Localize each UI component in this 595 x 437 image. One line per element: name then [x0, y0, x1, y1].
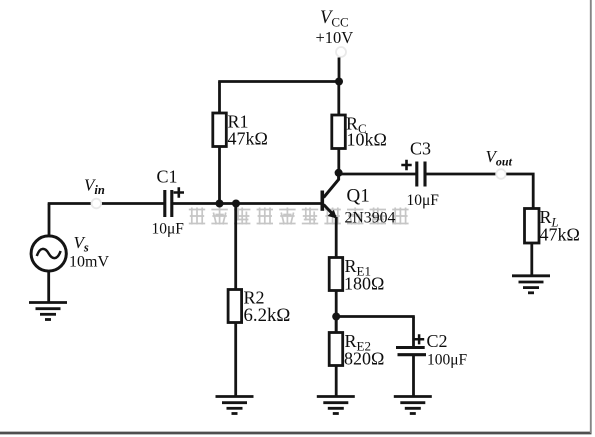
- svg-text:C2: C2: [427, 331, 448, 351]
- wire C2 top lead: [412, 317, 415, 348]
- source Vs circle: [31, 236, 66, 271]
- VCC terminal: [336, 47, 346, 57]
- wire base segment C1 to Q1: [172, 202, 323, 205]
- capacitor C2 bottom plate: [398, 353, 427, 356]
- wire RC top lead: [337, 82, 340, 117]
- svg-text:10kΩ: 10kΩ: [347, 130, 387, 150]
- svg-text:10μF: 10μF: [152, 221, 185, 238]
- svg-text:VCC: VCC: [320, 8, 349, 30]
- transistor Q1 emitter arrow: [328, 210, 337, 219]
- svg-text:10mV: 10mV: [69, 254, 109, 271]
- svg-text:100μF: 100μF: [427, 352, 468, 369]
- wire top rail: [218, 80, 340, 83]
- wire source top corner: [48, 204, 51, 237]
- wire RE2 top: [335, 317, 338, 334]
- svg-text:47kΩ: 47kΩ: [540, 225, 580, 245]
- wire RC bottom lead: [337, 149, 340, 174]
- wire input segment from source corner: [48, 202, 92, 205]
- wire C2 bottom lead: [412, 355, 415, 397]
- svg-text:Vs: Vs: [74, 233, 89, 255]
- junction dot top rail / RC: [335, 78, 343, 86]
- C2 plus polarity: [414, 334, 424, 344]
- resistor RE2: [329, 333, 343, 366]
- svg-text:Vout: Vout: [486, 147, 513, 169]
- svg-text:C1: C1: [157, 167, 178, 187]
- wire R2 top lead: [234, 204, 237, 291]
- node Vout terminal: [496, 169, 506, 179]
- wire VCC supply vertical: [338, 58, 341, 83]
- transistor Q1 base bar: [320, 191, 324, 211]
- resistor RE1: [329, 258, 343, 291]
- wire base segment from Vin to C1: [101, 202, 164, 205]
- capacitor C3 plate left: [415, 162, 418, 187]
- wire R2 bottom lead: [234, 323, 237, 397]
- resistor R1: [213, 113, 227, 147]
- svg-text:C3: C3: [410, 139, 431, 159]
- wire Vs bottom lead: [47, 271, 50, 303]
- wire RL bottom lead: [530, 243, 533, 276]
- svg-text:47kΩ: 47kΩ: [228, 129, 268, 149]
- resistor R2: [228, 290, 242, 323]
- wire Vout to RL corner: [506, 174, 533, 209]
- C1 plus polarity: [174, 187, 184, 197]
- svg-text:Vin: Vin: [84, 176, 105, 198]
- wire collector to C3: [339, 173, 416, 176]
- C3 plus polarity: [401, 160, 411, 170]
- wire bypass horizontal: [336, 315, 415, 318]
- svg-text:2N3904: 2N3904: [345, 210, 396, 227]
- wire RE1 to RE2: [335, 291, 338, 334]
- junction dot base/R1: [216, 200, 224, 208]
- ground under Vs: [29, 301, 67, 304]
- resistor RC: [332, 115, 346, 149]
- svg-text:Q1: Q1: [347, 186, 370, 207]
- transistor Q1 emitter lead: [324, 205, 336, 218]
- wire RE2 bottom lead: [335, 366, 338, 397]
- wire R1 top lead: [218, 82, 221, 115]
- capacitor C2 top plate: [396, 346, 425, 349]
- wire C3 to Vout: [425, 173, 496, 176]
- capacitor C1 plate left: [163, 190, 166, 217]
- svg-text:180Ω: 180Ω: [344, 274, 384, 294]
- capacitor C1 plate right: [170, 190, 173, 217]
- wire R1 bottom lead: [218, 147, 221, 205]
- source Vs sine wave: [37, 249, 61, 258]
- ground under RE2: [317, 395, 355, 398]
- ground under RL: [512, 274, 550, 277]
- node Vin terminal: [92, 199, 102, 209]
- capacitor C3 plate right: [423, 162, 426, 187]
- resistor RL: [525, 209, 540, 244]
- junction dot collector/output: [335, 169, 343, 177]
- ground under R2: [216, 395, 254, 398]
- svg-text:6.2kΩ: 6.2kΩ: [244, 305, 291, 326]
- svg-text:10μF: 10μF: [407, 192, 440, 209]
- junction dot emitter bypass: [332, 313, 340, 321]
- transistor Q1 collector lead: [324, 173, 339, 198]
- svg-text:820Ω: 820Ω: [344, 349, 384, 369]
- frame shadow bottom: [0, 432, 592, 435]
- wire emitter to RE1: [335, 217, 338, 259]
- ground under C2: [394, 395, 432, 398]
- svg-text:+10V: +10V: [316, 28, 354, 47]
- frame shadow right: [590, 0, 592, 433]
- junction dot base/R2: [232, 200, 240, 208]
